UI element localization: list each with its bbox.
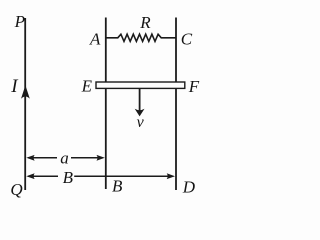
wire PQ (long straight current-carrying wire) <box>24 18 26 190</box>
svg-text:F: F <box>188 77 200 96</box>
conducting rod EF (sliding bar) <box>96 82 185 88</box>
rail CD (right vertical rail) <box>175 18 177 191</box>
svg-text:D: D <box>182 178 196 197</box>
svg-text:B: B <box>112 176 123 195</box>
svg-text:B: B <box>63 168 74 187</box>
velocity arrow v (downward from rod) <box>139 89 141 111</box>
svg-text:I: I <box>10 76 19 97</box>
dimension arrow B (wire PQ to rail CD) <box>28 175 58 177</box>
svg-text:a: a <box>60 149 68 168</box>
svg-text:P: P <box>14 12 25 31</box>
svg-text:E: E <box>81 77 93 96</box>
current arrow I (upward arrowhead on wire PQ) <box>21 85 30 99</box>
rail AB (left vertical rail) <box>105 18 107 190</box>
dimension arrow a (wire PQ to rail AB) <box>28 157 57 159</box>
svg-text:A: A <box>89 30 101 49</box>
resistor R (zigzag between rails at top) <box>106 34 175 41</box>
svg-text:v: v <box>137 114 145 131</box>
svg-text:C: C <box>181 30 193 49</box>
svg-text:R: R <box>139 13 151 32</box>
svg-text:Q: Q <box>10 180 22 199</box>
